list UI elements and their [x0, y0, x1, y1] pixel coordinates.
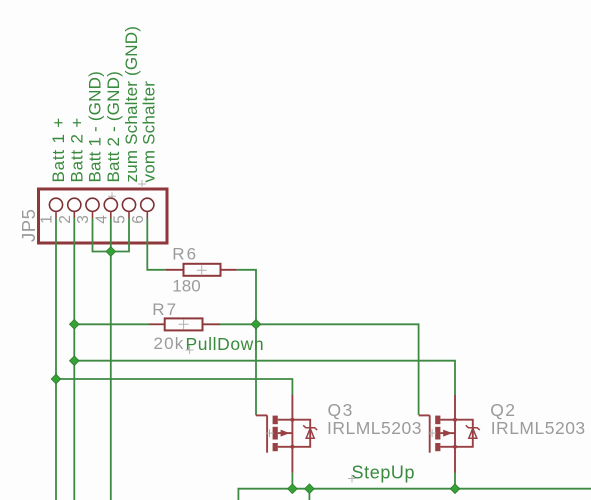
resistor R6 left stub: [165, 269, 183, 271]
wire Q2 drain to StepUp rail: [454, 473, 456, 489]
junction StepUp Q2: [450, 484, 460, 494]
pin 1 stem: [55, 211, 57, 218]
resistor R6 body: [184, 264, 221, 276]
svg-text:Batt 2 +: Batt 2 +: [68, 117, 87, 182]
origin cross StepUp: [348, 475, 356, 483]
svg-text:PullDown: PullDown: [186, 334, 265, 354]
transistor Q3: [256, 395, 317, 473]
pin 5 stem: [128, 211, 130, 218]
junction gate node: [251, 320, 261, 330]
svg-text:5: 5: [112, 215, 129, 224]
svg-text:R6: R6: [172, 245, 198, 264]
junction R7 row on Batt2 wire: [70, 320, 80, 330]
svg-text:R7: R7: [152, 300, 178, 319]
wire pin5 to GND junction: [111, 218, 129, 252]
junction StepUp branch: [305, 484, 315, 494]
pin 4 circle: [104, 198, 117, 211]
svg-text:6: 6: [130, 215, 147, 224]
svg-text:Batt 1 - (GND): Batt 1 - (GND): [86, 71, 105, 182]
svg-text:Batt 2 - (GND): Batt 2 - (GND): [104, 71, 123, 182]
wire StepUp rail: [238, 489, 591, 500]
svg-text:IRLML5203: IRLML5203: [491, 418, 586, 438]
svg-text:2: 2: [57, 215, 74, 224]
transistor Q2: [419, 395, 480, 473]
svg-text:zum Schalter (GND): zum Schalter (GND): [122, 26, 141, 183]
wire Batt 1 + (pin1 down): [55, 218, 57, 500]
transistor Q3 origin cross: [266, 429, 274, 437]
svg-text:20k: 20k: [154, 334, 185, 353]
pin 4 stem: [110, 211, 112, 218]
wire GND (pin4 down): [110, 218, 112, 500]
junction GND under connector: [106, 247, 116, 257]
pin 3 stem: [92, 211, 94, 218]
resistor R7 right stub: [203, 323, 221, 325]
svg-text:4: 4: [93, 215, 110, 224]
resistor R7 left stub: [149, 323, 165, 325]
junction Batt2 row: [70, 356, 80, 366]
svg-text:StepUp: StepUp: [352, 463, 416, 483]
junction StepUp Q3: [288, 484, 298, 494]
resistor R6 origin cross: [197, 265, 207, 275]
resistor R7 body: [165, 318, 203, 330]
connector origin cross: [108, 192, 116, 200]
connector JP5 body: [39, 189, 168, 243]
resistor R6 right stub: [221, 269, 237, 271]
wire Batt2 row to Q2 source: [74, 361, 455, 395]
svg-text:Batt 1 +: Batt 1 +: [49, 117, 68, 182]
wire gate node down to Q3 gate: [255, 324, 257, 415]
wire pin6 vom Schalter to R6: [147, 218, 165, 270]
wire R6 right to gate node: [237, 270, 256, 325]
junction Batt1 row: [51, 374, 61, 384]
wire pin3 to GND junction: [93, 218, 111, 252]
origin cross vom Schalter: [138, 180, 146, 188]
svg-text:1: 1: [39, 215, 56, 224]
wire R7 row left: [74, 323, 149, 325]
wire Q3 drain to StepUp rail: [291, 473, 293, 489]
svg-text:Q2: Q2: [490, 400, 516, 420]
origin cross PullDown: [186, 346, 194, 354]
transistor Q2 origin cross: [428, 429, 436, 437]
svg-text:180: 180: [172, 277, 200, 296]
wire Batt1 row to Q3 source: [56, 379, 292, 395]
pin 2 circle: [68, 198, 81, 211]
svg-text:3: 3: [75, 215, 92, 224]
svg-text:IRLML5203: IRLML5203: [327, 418, 422, 438]
wire Batt 2 + (pin2 down): [73, 218, 75, 500]
svg-text:vom Schalter: vom Schalter: [140, 81, 159, 183]
wire R7 row right to Q2 gate: [220, 324, 419, 415]
pin 2 stem: [73, 211, 75, 218]
wire StepUp branch down: [308, 489, 310, 500]
pin 3 circle: [86, 198, 99, 211]
pin 5 circle: [122, 198, 135, 211]
pin 1 circle: [49, 198, 62, 211]
svg-text:Q3: Q3: [328, 400, 354, 420]
svg-text:JP5: JP5: [18, 209, 39, 242]
pin 6 stem: [146, 211, 148, 218]
pin 6 circle: [141, 198, 154, 211]
resistor R7 origin cross: [179, 319, 189, 329]
